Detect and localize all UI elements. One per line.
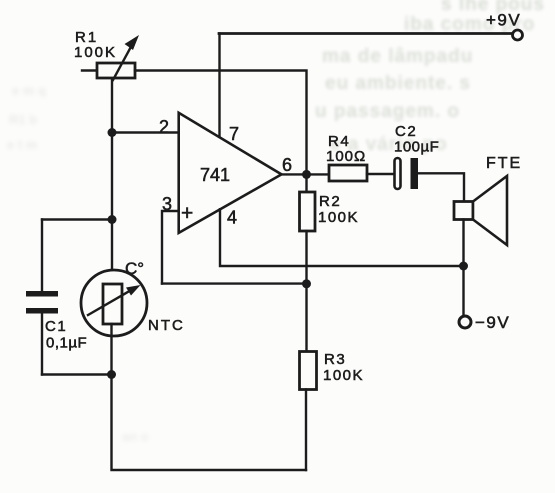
wire inverting column upper xyxy=(111,133,113,220)
wire bottom rail xyxy=(112,375,307,471)
svg-text:4: 4 xyxy=(227,208,237,228)
capacitor C1 xyxy=(26,220,112,375)
svg-text:eu ambiente. s: eu ambiente. s xyxy=(325,73,471,94)
svg-text:an o: an o xyxy=(122,429,149,444)
wire pin3 node line xyxy=(162,282,307,284)
pin 4 xyxy=(220,208,464,267)
svg-text:C1: C1 xyxy=(45,318,67,335)
svg-text:100µF: 100µF xyxy=(394,139,439,156)
svg-text:FTE: FTE xyxy=(486,155,522,172)
pin 3 xyxy=(162,194,179,284)
pin 6 xyxy=(282,155,330,175)
junction -9V node xyxy=(459,262,468,271)
svg-text:R2: R2 xyxy=(319,193,341,210)
resistor R3 xyxy=(300,284,365,470)
svg-text:100K: 100K xyxy=(323,367,364,384)
junction pin2 node xyxy=(108,128,117,137)
svg-text:7: 7 xyxy=(229,124,239,144)
wire thermistor to bottom node xyxy=(110,324,112,375)
svg-text:NTC: NTC xyxy=(148,317,185,334)
svg-text:+: + xyxy=(181,202,193,225)
svg-text:C°: C° xyxy=(125,259,144,278)
junction R3 top node xyxy=(302,279,311,288)
wire C2 to speaker xyxy=(418,173,464,201)
terminal -9V xyxy=(459,316,471,328)
svg-text:e m q: e m q xyxy=(12,83,46,98)
potentiometer R1 xyxy=(74,29,139,80)
wire node to thermistor xyxy=(111,220,113,285)
junction output node xyxy=(302,170,311,179)
svg-text:u passagem. o: u passagem. o xyxy=(315,101,460,122)
svg-text:100K: 100K xyxy=(318,209,359,226)
svg-text:6: 6 xyxy=(282,155,292,175)
wire R1 right lead to output node xyxy=(135,71,307,175)
pin 2 xyxy=(112,117,179,137)
wire node to C1 xyxy=(42,218,112,220)
wire speaker to -9V terminal xyxy=(462,220,464,317)
wire pin7 to +9V rail xyxy=(218,34,220,138)
svg-text:ma de lâmpadu: ma de lâmpadu xyxy=(322,46,473,67)
svg-text:100K: 100K xyxy=(74,44,117,61)
wire R1 bottom to inverting node xyxy=(111,79,113,133)
svg-text:−9V: −9V xyxy=(475,313,510,332)
svg-text:0,1µF: 0,1µF xyxy=(46,335,87,352)
wire +9V rail xyxy=(219,32,512,35)
svg-text:R3: R3 xyxy=(324,351,346,368)
svg-text:C2: C2 xyxy=(395,123,417,140)
svg-text:R1 b: R1 b xyxy=(9,112,37,127)
speaker FTE xyxy=(454,155,522,245)
thermistor NTC xyxy=(81,259,185,336)
svg-text:3: 3 xyxy=(162,194,172,214)
junction C1 bottom node xyxy=(107,370,116,379)
resistor R2 xyxy=(300,174,360,283)
svg-text:741: 741 xyxy=(200,165,230,185)
junction C1 top node xyxy=(108,215,117,224)
svg-text:+9V: +9V xyxy=(486,11,521,30)
svg-text:2: 2 xyxy=(159,117,169,137)
svg-text:100Ω: 100Ω xyxy=(326,148,366,165)
op-amp U1 741 xyxy=(179,113,282,233)
svg-text:e t m: e t m xyxy=(7,137,37,152)
terminal +9V xyxy=(513,30,523,40)
capacitor C2 xyxy=(394,123,439,189)
resistor R4 xyxy=(326,133,395,181)
